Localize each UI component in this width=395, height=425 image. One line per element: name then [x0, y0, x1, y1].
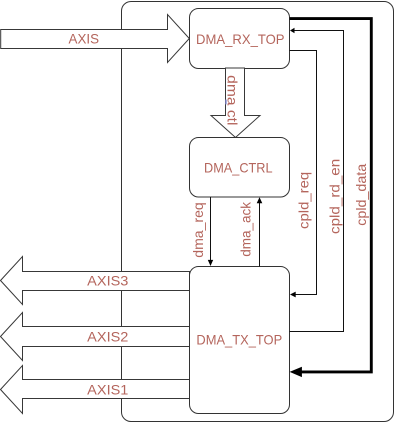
svg-text:dma_req: dma_req [190, 202, 206, 258]
svg-text:cpld_rd_en: cpld_rd_en [327, 159, 343, 234]
svg-text:dma ctl: dma ctl [224, 75, 240, 125]
svg-text:DMA_CTRL: DMA_CTRL [204, 159, 273, 175]
svg-text:dma_ack: dma_ack [237, 201, 253, 257]
svg-text:AXIS2: AXIS2 [87, 328, 128, 344]
svg-text:AXIS3: AXIS3 [87, 273, 128, 289]
svg-text:DMA_RX_TOP: DMA_RX_TOP [196, 31, 285, 47]
svg-text:AXIS: AXIS [69, 31, 100, 47]
svg-text:AXIS1: AXIS1 [87, 382, 128, 398]
svg-text:DMA_TX_TOP: DMA_TX_TOP [196, 332, 282, 348]
svg-text:cpld_data: cpld_data [353, 164, 369, 226]
svg-text:cpld_req: cpld_req [296, 172, 312, 229]
